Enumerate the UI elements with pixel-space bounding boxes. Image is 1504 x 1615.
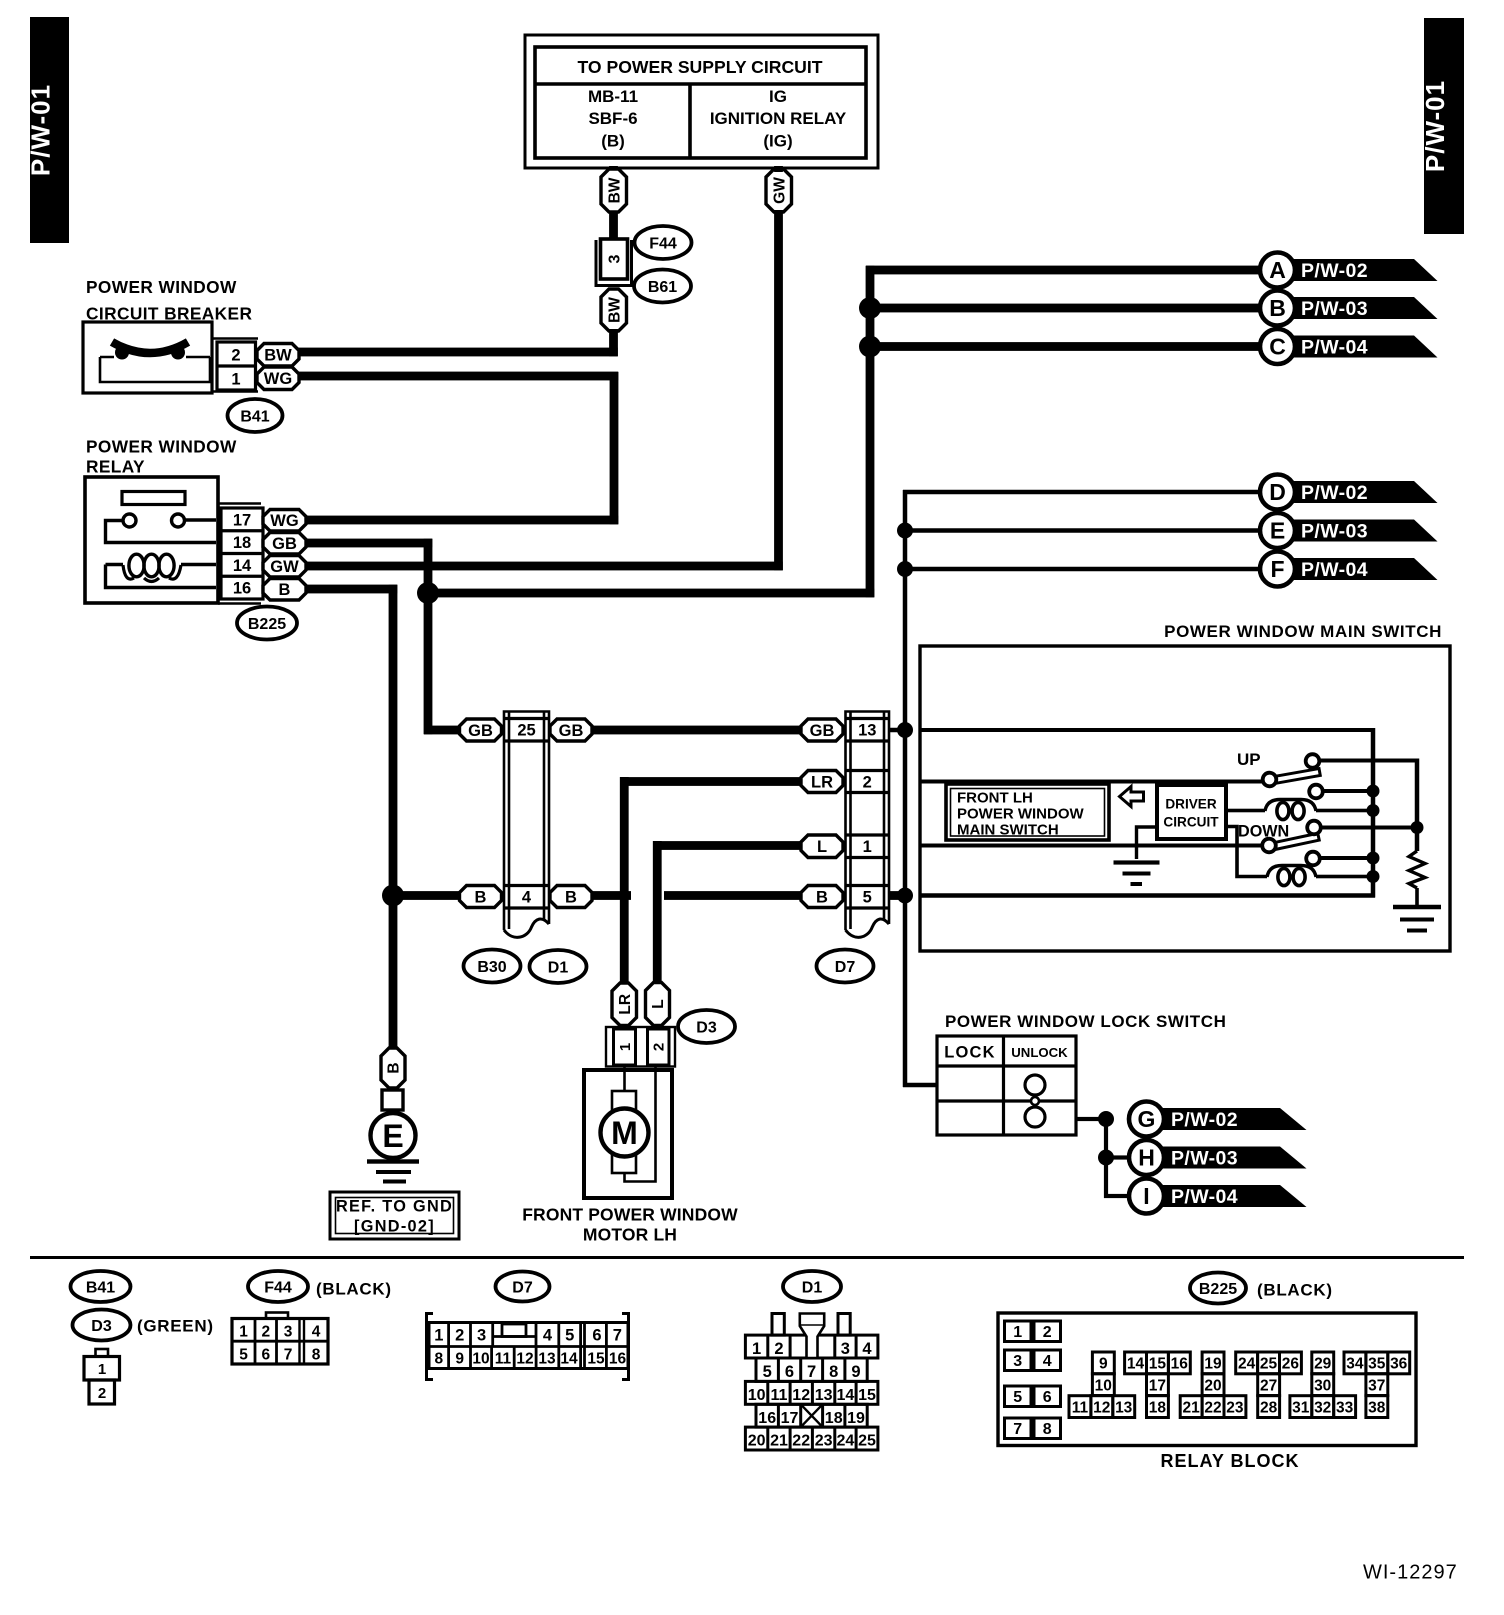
motor lead label LR <box>612 983 637 1026</box>
svg-text:TO POWER SUPPLY CIRCUIT: TO POWER SUPPLY CIRCUIT <box>577 57 822 77</box>
page tab P/W-01 right <box>1420 18 1464 234</box>
D1 side wire label GB <box>550 719 592 741</box>
svg-text:5: 5 <box>239 1347 248 1364</box>
svg-text:14: 14 <box>233 557 252 575</box>
svg-text:GB: GB <box>810 722 835 740</box>
svg-text:D3: D3 <box>696 1019 717 1036</box>
page tab P/W-01 left <box>26 17 70 243</box>
relay coil <box>106 565 217 588</box>
svg-text:D7: D7 <box>512 1279 533 1296</box>
relay connector pins <box>218 504 263 604</box>
wire pin13 to trunk <box>889 728 903 733</box>
svg-text:10: 10 <box>748 1387 766 1404</box>
svg-text:12: 12 <box>516 1351 533 1368</box>
svg-text:MAIN SWITCH: MAIN SWITCH <box>957 822 1059 839</box>
motor connector D3 <box>606 1027 675 1067</box>
svg-text:14: 14 <box>837 1387 855 1404</box>
junction dot C wire <box>859 336 881 358</box>
svg-text:(GREEN): (GREEN) <box>137 1317 214 1336</box>
svg-text:POWER WINDOW LOCK SWITCH: POWER WINDOW LOCK SWITCH <box>945 1012 1226 1031</box>
svg-text:38: 38 <box>1368 1399 1386 1416</box>
svg-text:25: 25 <box>517 722 535 740</box>
svg-text:7: 7 <box>284 1347 293 1364</box>
offpage arrow C P/W-04 <box>1260 329 1438 364</box>
internal wire LR to UP switch <box>920 780 1264 784</box>
svg-text:P/W-04: P/W-04 <box>1301 337 1368 359</box>
power supply source box <box>525 35 878 168</box>
svg-text:WG: WG <box>264 370 292 388</box>
D7 pin 5 wire label B <box>801 886 843 908</box>
svg-text:19: 19 <box>847 1410 865 1427</box>
svg-text:C: C <box>1269 334 1286 360</box>
connector ref B41 (footer) <box>71 1271 131 1302</box>
svg-text:1: 1 <box>239 1324 248 1341</box>
relay pin 16 wire label B <box>263 579 306 601</box>
junction dot pin13 <box>897 722 913 738</box>
front LH main switch label box <box>946 784 1109 840</box>
svg-text:4: 4 <box>862 1340 872 1358</box>
connector ref D7 (footer) <box>496 1272 550 1302</box>
svg-text:GB: GB <box>272 535 297 553</box>
connector ref B41 <box>228 399 283 432</box>
wire to resistor <box>1415 759 1420 852</box>
svg-text:MOTOR LH: MOTOR LH <box>583 1225 677 1245</box>
svg-text:B41: B41 <box>240 408 269 425</box>
svg-text:D7: D7 <box>835 959 856 976</box>
svg-text:1: 1 <box>617 1043 634 1051</box>
svg-text:POWER WINDOW: POWER WINDOW <box>957 806 1084 823</box>
wire label BW lower <box>601 289 627 331</box>
junction dot B trunk <box>382 885 404 907</box>
relay pin 18 wire label GB <box>263 533 306 555</box>
svg-text:B61: B61 <box>648 279 677 296</box>
svg-text:13: 13 <box>1115 1399 1133 1416</box>
wire label GW <box>766 169 792 212</box>
svg-text:H: H <box>1138 1145 1155 1171</box>
svg-text:E: E <box>382 1118 403 1154</box>
wire B relay to ground trunk <box>306 585 397 594</box>
svg-text:P/W-02: P/W-02 <box>1301 260 1368 282</box>
svg-text:15: 15 <box>587 1351 605 1368</box>
svg-text:F44: F44 <box>649 235 677 252</box>
B30 side wire label GB <box>460 719 502 741</box>
D7 pin 1 wire label L <box>801 835 843 858</box>
D7 pin 13 wire label GB <box>801 719 843 741</box>
wire L <box>653 841 801 850</box>
internal wire B bus <box>920 893 1375 898</box>
svg-text:25: 25 <box>1260 1356 1278 1373</box>
svg-text:2: 2 <box>231 347 240 365</box>
offpage arrow A P/W-02 <box>1260 253 1438 288</box>
svg-text:3: 3 <box>284 1324 293 1341</box>
svg-text:17: 17 <box>781 1410 799 1427</box>
svg-text:21: 21 <box>770 1433 788 1450</box>
svg-text:UNLOCK: UNLOCK <box>1011 1045 1068 1060</box>
svg-text:B225: B225 <box>1199 1281 1237 1298</box>
svg-text:13: 13 <box>858 722 876 740</box>
connector F44 pinout <box>232 1313 328 1365</box>
svg-text:WI-12297: WI-12297 <box>1363 1562 1458 1584</box>
svg-text:35: 35 <box>1368 1356 1386 1373</box>
svg-text:33: 33 <box>1336 1399 1354 1416</box>
svg-text:D1: D1 <box>548 959 569 976</box>
svg-text:8: 8 <box>1043 1421 1052 1438</box>
wire WG breaker to relay <box>298 372 618 381</box>
svg-text:FRONT POWER WINDOW: FRONT POWER WINDOW <box>522 1205 738 1225</box>
svg-text:16: 16 <box>233 580 251 598</box>
svg-text:22: 22 <box>792 1433 810 1450</box>
svg-text:2: 2 <box>651 1043 668 1051</box>
svg-text:15: 15 <box>858 1387 876 1404</box>
breaker connector pins <box>212 339 258 392</box>
offpage arrow I P/W-04 <box>1129 1179 1307 1214</box>
svg-text:SBF-6: SBF-6 <box>588 109 637 128</box>
ref to ground box <box>330 1192 459 1239</box>
DOWN coil winding <box>1226 827 1373 886</box>
svg-text:18: 18 <box>1149 1399 1167 1416</box>
svg-text:8: 8 <box>312 1347 321 1364</box>
wire trunk D/E/F <box>903 490 908 1087</box>
svg-text:GB: GB <box>559 722 584 740</box>
svg-text:B225: B225 <box>248 616 286 633</box>
DOWN switch <box>1262 821 1419 866</box>
svg-text:25: 25 <box>858 1433 876 1450</box>
svg-text:24: 24 <box>1238 1356 1256 1373</box>
svg-text:20: 20 <box>1204 1377 1221 1394</box>
svg-text:4: 4 <box>543 1327 553 1345</box>
svg-text:17: 17 <box>1149 1377 1166 1394</box>
svg-text:LOCK: LOCK <box>944 1044 996 1062</box>
svg-text:POWER WINDOW: POWER WINDOW <box>86 437 237 457</box>
svg-text:D1: D1 <box>802 1279 823 1296</box>
svg-text:3: 3 <box>841 1340 850 1358</box>
junction dot F wire <box>897 561 913 577</box>
svg-text:5: 5 <box>763 1363 772 1381</box>
svg-text:P/W-04: P/W-04 <box>1171 1186 1238 1208</box>
svg-text:RELAY: RELAY <box>86 457 145 477</box>
svg-text:8: 8 <box>829 1363 838 1381</box>
junction dot B wire <box>859 297 881 319</box>
svg-text:B41: B41 <box>86 1279 115 1296</box>
svg-text:(BLACK): (BLACK) <box>1257 1281 1333 1300</box>
ground (resistor) <box>1393 905 1441 933</box>
svg-text:6: 6 <box>785 1363 794 1381</box>
connector ref D3 (footer) <box>73 1310 131 1341</box>
svg-text:P/W-03: P/W-03 <box>1301 298 1368 320</box>
svg-text:31: 31 <box>1292 1399 1310 1416</box>
svg-text:13: 13 <box>815 1387 833 1404</box>
wire to lock switch <box>903 1083 938 1088</box>
svg-text:B: B <box>565 888 577 906</box>
svg-text:P/W-02: P/W-02 <box>1171 1109 1238 1131</box>
svg-text:A: A <box>1269 257 1286 283</box>
fuse holder B61 <box>596 240 632 286</box>
relay pin 17 wire label WG <box>263 510 306 532</box>
svg-text:GW: GW <box>270 558 299 576</box>
connector D7 pinout <box>427 1314 629 1380</box>
power window relay title <box>86 437 237 477</box>
connector ref F44 <box>635 226 692 259</box>
wire BW to circuit breaker <box>609 329 618 356</box>
svg-text:9: 9 <box>851 1363 860 1381</box>
fuse F44 No.3 <box>601 239 628 279</box>
svg-text:17: 17 <box>233 512 251 530</box>
svg-text:28: 28 <box>1260 1399 1278 1416</box>
svg-text:[GND-02]: [GND-02] <box>354 1218 435 1236</box>
motor lead label L <box>646 983 670 1026</box>
svg-text:1: 1 <box>752 1340 761 1358</box>
svg-text:8: 8 <box>434 1351 443 1368</box>
ground terminal E <box>371 1113 416 1158</box>
offpage arrow D P/W-02 <box>1260 475 1438 510</box>
resistor <box>1409 851 1425 888</box>
svg-text:7: 7 <box>807 1363 816 1381</box>
svg-text:GW: GW <box>771 177 788 204</box>
svg-text:9: 9 <box>1099 1356 1108 1373</box>
svg-text:3: 3 <box>1013 1353 1022 1370</box>
svg-text:11: 11 <box>771 1387 788 1404</box>
svg-text:WG: WG <box>270 512 298 530</box>
D1 side wire label B <box>550 886 592 908</box>
svg-text:1: 1 <box>231 371 240 389</box>
svg-text:F44: F44 <box>264 1279 292 1296</box>
wire trunk A/B/C <box>866 266 875 598</box>
svg-text:2: 2 <box>98 1385 106 1402</box>
wire label B (ground lead) <box>381 1048 405 1088</box>
svg-text:1: 1 <box>434 1327 443 1345</box>
svg-text:1: 1 <box>1013 1324 1022 1341</box>
svg-text:P/W-01: P/W-01 <box>1420 80 1450 172</box>
connector D3 pinout <box>84 1349 120 1404</box>
svg-text:P/W-04: P/W-04 <box>1301 559 1368 581</box>
internal wire L to DOWN switch <box>920 844 1264 848</box>
svg-text:32: 32 <box>1314 1399 1331 1416</box>
connector ref D1 <box>530 950 587 983</box>
svg-text:2: 2 <box>863 773 872 791</box>
svg-text:P/W-03: P/W-03 <box>1301 521 1368 543</box>
svg-text:4: 4 <box>312 1324 321 1341</box>
svg-text:27: 27 <box>1260 1377 1277 1394</box>
svg-text:19: 19 <box>1204 1356 1222 1373</box>
svg-text:IG: IG <box>769 87 787 106</box>
svg-text:REF. TO GND: REF. TO GND <box>336 1198 453 1216</box>
svg-text:20: 20 <box>748 1433 766 1450</box>
junction dot E wire <box>897 523 913 539</box>
D7 pin 2 wire label LR <box>801 771 843 793</box>
svg-text:5: 5 <box>565 1327 574 1345</box>
svg-text:MB-11: MB-11 <box>588 87 638 106</box>
wire label BW upper <box>601 169 627 212</box>
svg-text:5: 5 <box>863 889 872 907</box>
svg-text:37: 37 <box>1368 1377 1385 1394</box>
svg-text:I: I <box>1143 1183 1149 1209</box>
breaker pin 2 wire label BW <box>257 344 299 367</box>
svg-text:14: 14 <box>1127 1356 1145 1373</box>
svg-text:4: 4 <box>1043 1353 1052 1370</box>
svg-text:10: 10 <box>472 1351 489 1368</box>
svg-text:F: F <box>1270 556 1284 582</box>
svg-text:2: 2 <box>774 1340 783 1358</box>
svg-text:B: B <box>475 888 487 906</box>
ground symbol <box>367 1159 419 1183</box>
svg-text:B: B <box>1269 295 1286 321</box>
svg-text:IGNITION RELAY: IGNITION RELAY <box>710 109 847 128</box>
svg-text:DOWN: DOWN <box>1238 823 1289 841</box>
connector ref F44 (footer) <box>248 1271 308 1302</box>
svg-text:(B): (B) <box>601 132 625 151</box>
svg-text:UP: UP <box>1237 750 1261 769</box>
svg-text:3: 3 <box>607 254 624 263</box>
svg-text:18: 18 <box>825 1410 843 1427</box>
wire GB connector to main switch <box>591 726 801 735</box>
svg-text:D: D <box>1269 479 1286 505</box>
svg-text:34: 34 <box>1346 1356 1364 1373</box>
lock switch contacts <box>1025 1075 1045 1127</box>
svg-text:POWER WINDOW MAIN SWITCH: POWER WINDOW MAIN SWITCH <box>1164 622 1442 641</box>
svg-text:11: 11 <box>1072 1399 1089 1416</box>
svg-text:BW: BW <box>264 347 292 365</box>
offpage arrow F P/W-04 <box>1260 552 1438 587</box>
svg-text:16: 16 <box>758 1410 776 1427</box>
offpage arrow B P/W-03 <box>1260 291 1438 326</box>
connector D1 pinout <box>745 1314 878 1451</box>
connector ref D1 (footer) <box>783 1271 841 1302</box>
power window lock switch box <box>937 1036 1076 1135</box>
svg-text:36: 36 <box>1390 1356 1408 1373</box>
wire GW <box>774 166 783 172</box>
wire B connector to main switch (with crossover gaps) <box>591 891 631 900</box>
svg-text:9: 9 <box>455 1351 464 1368</box>
svg-text:22: 22 <box>1204 1399 1221 1416</box>
wire lock switch to G/H/I <box>1076 1111 1130 1198</box>
inline connector B30/D1 strip <box>504 712 549 938</box>
svg-text:7: 7 <box>1013 1421 1022 1438</box>
svg-text:6: 6 <box>592 1327 601 1345</box>
power window circuit breaker title <box>86 277 252 324</box>
svg-text:B30: B30 <box>477 959 506 976</box>
junction dot GB/trunk <box>417 582 439 604</box>
junction dot pin5 <box>897 888 913 904</box>
svg-text:D3: D3 <box>91 1318 112 1335</box>
svg-text:M: M <box>611 1115 638 1151</box>
wire LR <box>620 777 801 786</box>
svg-text:6: 6 <box>261 1347 270 1364</box>
svg-text:DRIVER: DRIVER <box>1165 797 1217 812</box>
svg-text:2: 2 <box>1043 1324 1052 1341</box>
svg-text:29: 29 <box>1314 1356 1332 1373</box>
svg-text:23: 23 <box>1226 1399 1244 1416</box>
relay block B225 pinout <box>998 1313 1416 1446</box>
svg-text:BW: BW <box>606 177 623 203</box>
svg-text:P/W-01: P/W-01 <box>26 84 56 176</box>
svg-text:(IG): (IG) <box>763 132 792 151</box>
svg-text:11: 11 <box>495 1351 512 1368</box>
svg-text:21: 21 <box>1182 1399 1200 1416</box>
svg-text:P/W-03: P/W-03 <box>1171 1148 1238 1170</box>
svg-text:GB: GB <box>468 722 493 740</box>
breaker pin 1 wire label WG <box>257 367 299 390</box>
ground (driver circuit) <box>1114 827 1160 886</box>
connector ref B225 <box>237 607 297 640</box>
motor caption <box>522 1205 738 1245</box>
svg-text:18: 18 <box>233 534 251 552</box>
svg-text:13: 13 <box>538 1351 556 1368</box>
connector ref D7 <box>817 950 874 983</box>
driver circuit box <box>1157 785 1226 839</box>
circuit breaker B41 <box>83 322 212 393</box>
connector ref B225 (footer) <box>1190 1273 1246 1304</box>
footer separator <box>30 1256 1464 1259</box>
connector ref D3 <box>678 1010 735 1043</box>
svg-text:30: 30 <box>1314 1377 1331 1394</box>
left arrow icon <box>1120 787 1144 807</box>
svg-text:L: L <box>817 838 827 856</box>
svg-text:5: 5 <box>1013 1389 1022 1406</box>
UP switch <box>1263 754 1419 798</box>
power window main switch box <box>920 646 1450 951</box>
svg-text:15: 15 <box>1149 1356 1167 1373</box>
svg-text:B: B <box>279 581 291 599</box>
ground connector <box>382 1090 403 1110</box>
svg-text:LR: LR <box>811 773 833 791</box>
svg-text:16: 16 <box>609 1351 627 1368</box>
B30 side wire label B <box>460 886 502 908</box>
svg-text:2: 2 <box>261 1324 270 1341</box>
svg-text:12: 12 <box>792 1387 810 1404</box>
svg-text:23: 23 <box>815 1433 833 1450</box>
connector D7 strip <box>846 712 890 938</box>
svg-text:CIRCUIT: CIRCUIT <box>1163 815 1219 830</box>
svg-text:FRONT LH: FRONT LH <box>957 790 1033 807</box>
wire BW from power box <box>609 166 618 172</box>
svg-text:6: 6 <box>1043 1389 1052 1406</box>
svg-text:16: 16 <box>1171 1356 1189 1373</box>
front power window motor LH <box>584 1066 672 1198</box>
svg-text:14: 14 <box>560 1351 578 1368</box>
svg-text:12: 12 <box>1093 1399 1110 1416</box>
UP coil winding <box>1226 800 1373 820</box>
svg-text:10: 10 <box>1095 1377 1112 1394</box>
offpage arrow G P/W-02 <box>1129 1102 1307 1137</box>
svg-text:P/W-02: P/W-02 <box>1301 482 1368 504</box>
svg-text:G: G <box>1138 1106 1156 1132</box>
offpage arrow H P/W-03 <box>1129 1140 1307 1175</box>
relay pin 14 wire label GW <box>263 556 306 578</box>
svg-text:B: B <box>386 1062 403 1073</box>
svg-text:7: 7 <box>613 1327 622 1345</box>
svg-text:3: 3 <box>477 1327 486 1345</box>
power window relay B225 <box>85 477 218 603</box>
offpage arrow E P/W-03 <box>1260 513 1438 548</box>
svg-text:BW: BW <box>606 297 623 323</box>
connector ref B61 <box>634 270 691 303</box>
svg-text:24: 24 <box>837 1433 855 1450</box>
wire GB relay to connector B30 <box>306 539 432 548</box>
svg-text:26: 26 <box>1282 1356 1300 1373</box>
svg-text:L: L <box>650 999 667 1008</box>
svg-text:RELAY BLOCK: RELAY BLOCK <box>1160 1451 1299 1471</box>
svg-text:4: 4 <box>522 889 532 907</box>
svg-text:POWER WINDOW: POWER WINDOW <box>86 277 237 297</box>
bus junction dots <box>1367 785 1380 798</box>
svg-text:(BLACK): (BLACK) <box>316 1280 392 1299</box>
svg-text:E: E <box>1270 518 1285 544</box>
svg-text:2: 2 <box>455 1327 464 1345</box>
internal wire GB bus <box>920 728 1375 732</box>
connector ref B30 <box>464 950 521 983</box>
svg-text:1: 1 <box>863 838 872 856</box>
svg-text:LR: LR <box>617 994 634 1015</box>
